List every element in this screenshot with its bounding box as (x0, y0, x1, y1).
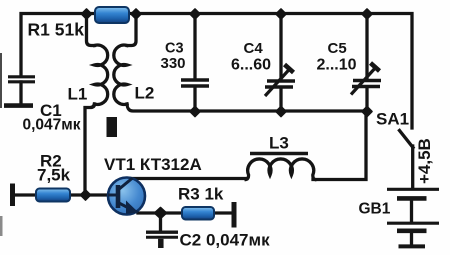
svg-text:6...60: 6...60 (231, 56, 271, 73)
svg-text:R3 1k: R3 1k (178, 185, 224, 204)
svg-text:7,5k: 7,5k (37, 166, 71, 185)
svg-text:GB1: GB1 (359, 201, 391, 218)
svg-text:L2: L2 (135, 84, 155, 103)
svg-text:L1: L1 (68, 85, 88, 104)
svg-text:C2 0,047мк: C2 0,047мк (180, 231, 271, 250)
svg-text:+4,5В: +4,5В (415, 138, 434, 184)
svg-text:C5: C5 (328, 40, 347, 57)
svg-text:2...10: 2...10 (317, 56, 357, 73)
svg-text:0,047мк: 0,047мк (23, 117, 81, 134)
svg-text:R1 51k: R1 51k (28, 20, 85, 40)
svg-text:SA1: SA1 (376, 110, 409, 129)
svg-text:L3: L3 (269, 134, 289, 153)
svg-text:330: 330 (161, 55, 186, 72)
svg-text:C4: C4 (244, 40, 264, 57)
svg-text:VT1 КТ312А: VT1 КТ312А (104, 155, 202, 174)
